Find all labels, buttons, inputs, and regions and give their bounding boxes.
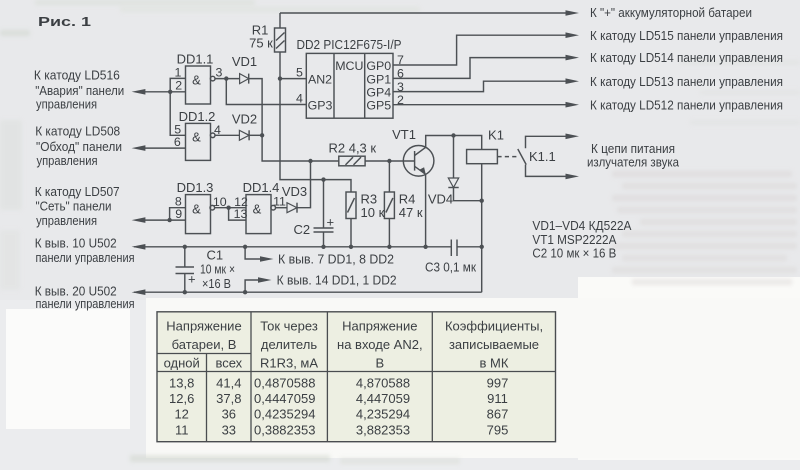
svg-text:Напряжение: Напряжение <box>342 319 417 334</box>
svg-text:997: 997 <box>487 376 509 391</box>
resistor R1 <box>275 28 286 52</box>
svg-text:на входе AN2,: на входе AN2, <box>337 337 423 352</box>
svg-text:+: + <box>188 272 196 287</box>
svg-text:К катоду LD516: К катоду LD516 <box>34 67 120 82</box>
junction VT1 base R4 <box>387 159 391 163</box>
junction R4 bottom ground rail <box>387 245 391 249</box>
net label LD508 Obhod <box>35 124 122 168</box>
wire node AN2 divider branch down to R3 <box>280 79 351 192</box>
IC DD2 MCU box <box>306 53 393 118</box>
wire C2 top lead to divider node <box>323 180 325 228</box>
svg-text:"Авария" панели: "Авария" панели <box>35 83 124 98</box>
svg-text:DD1.3: DD1.3 <box>177 180 214 195</box>
svg-text:3: 3 <box>215 66 222 80</box>
wire C1 bottom lead <box>184 274 186 293</box>
svg-text:К катоду LD513 панели управлен: К катоду LD513 панели управления <box>590 74 783 89</box>
junction C2 node on divider <box>321 177 325 181</box>
svg-text:DD1.2: DD1.2 <box>179 109 216 124</box>
svg-text:VT1: VT1 <box>392 127 416 142</box>
svg-text:2: 2 <box>397 93 404 107</box>
net label LD507 Set <box>35 184 120 228</box>
wire R1 bottom lead to node AN2 <box>279 52 281 79</box>
svg-text:в МК: в МК <box>480 356 509 371</box>
svg-text:4: 4 <box>214 123 221 137</box>
wire MCU GP4 pin3 to arrow LD513 <box>393 78 579 91</box>
wire DD1.3 pin8 step <box>170 208 186 220</box>
wire R2 to VT1 base <box>365 160 415 162</box>
svg-text:панели управления: панели управления <box>36 296 135 311</box>
svg-text:MCU: MCU <box>335 59 363 73</box>
svg-text:управления: управления <box>36 213 97 228</box>
svg-text:К выв. 7 DD1, 8 DD2: К выв. 7 DD1, 8 DD2 <box>278 251 394 266</box>
svg-text:GP3: GP3 <box>308 99 333 113</box>
label R3 value <box>361 192 385 221</box>
wire VD2 cathode to node <box>249 134 262 136</box>
svg-text:записываемые: записываемые <box>449 337 539 352</box>
wire ground rail right segment at C3 <box>457 246 482 248</box>
wire arrow LD507 to DD1.3 pin9 <box>132 217 186 223</box>
svg-text:11: 11 <box>273 195 286 209</box>
svg-text:панели управления: панели управления <box>36 250 135 265</box>
wire arrow LD508 to DD1.2 pin6 <box>132 145 186 151</box>
wire relay node to K1 coil top <box>454 136 482 150</box>
svg-text:911: 911 <box>487 391 508 406</box>
svg-text:"Сеть" панели: "Сеть" панели <box>36 199 112 214</box>
junction branch pins 14-1 supply rail <box>243 290 247 294</box>
data table <box>157 312 556 442</box>
transistor VT1 <box>403 146 434 177</box>
svg-text:0,4235294: 0,4235294 <box>254 406 315 421</box>
wire K1.1 bottom branch to arrow <box>526 165 580 180</box>
wire R1 top lead <box>279 13 281 28</box>
diode VD4 <box>448 178 458 188</box>
svg-text:&: & <box>192 130 201 145</box>
svg-text:AN2: AN2 <box>308 73 332 87</box>
svg-text:всех: всех <box>215 356 242 371</box>
svg-text:К катоду LD514 панели управлен: К катоду LD514 панели управления <box>590 50 783 65</box>
wire DD1.1 out branch to MCU pin GP3 <box>226 79 306 105</box>
wire C2 bottom lead <box>323 232 325 247</box>
junction C3 right supply line <box>480 245 484 249</box>
label C1 value <box>200 248 235 292</box>
svg-text:К выв. 10 U502: К выв. 10 U502 <box>35 235 117 250</box>
svg-text:K1.1: K1.1 <box>529 149 556 164</box>
svg-text:C2: C2 <box>294 222 311 237</box>
wire branch to pins 7 DD1 8 DD2 <box>245 247 273 262</box>
svg-text:10 к: 10 к <box>361 205 385 220</box>
svg-text:DD1.1: DD1.1 <box>177 52 214 67</box>
contact K1.1 blade <box>518 149 526 165</box>
svg-text:R1R3, мА: R1R3, мА <box>260 356 318 371</box>
wire DD1.3 out to DD1.4 pin12 <box>214 207 246 209</box>
net label pin 20 U502 <box>35 284 135 312</box>
svg-text:10 мк ×: 10 мк × <box>200 262 235 277</box>
svg-text:4,870588: 4,870588 <box>356 376 410 391</box>
junction VD3 node on R2 line <box>308 159 312 163</box>
junction DD1.1 inputs <box>168 90 172 94</box>
svg-text:DD1.4: DD1.4 <box>243 180 280 195</box>
wire R4 top lead <box>388 161 390 192</box>
svg-text:VD4: VD4 <box>428 192 453 207</box>
svg-text:11: 11 <box>175 423 189 438</box>
wire DD1.4 pin13 step <box>229 208 246 220</box>
svg-text:7: 7 <box>397 53 404 67</box>
junction C1 bottom supply rail <box>183 290 187 294</box>
wire supply rail <box>134 291 482 293</box>
wire K1.1 top branch to arrow <box>526 134 580 149</box>
svg-text:C3 0,1 мк: C3 0,1 мк <box>425 260 476 275</box>
gate DD1.4 <box>246 195 276 234</box>
parts list note <box>532 218 631 261</box>
wire R4 bottom lead <box>388 219 390 247</box>
svg-text:795: 795 <box>487 423 509 438</box>
svg-text:4,447059: 4,447059 <box>356 391 410 406</box>
svg-text:VD1: VD1 <box>232 54 257 69</box>
diode VD1 <box>240 74 249 84</box>
wire MCU GP5 pin2 to arrow LD512 <box>393 102 579 108</box>
svg-text:75 к: 75 к <box>249 35 273 50</box>
svg-text:излучателя звука: излучателя звука <box>587 155 680 170</box>
svg-text:0,4447059: 0,4447059 <box>254 391 315 406</box>
wire DD1.4 out to VD3 anode <box>275 207 287 209</box>
svg-text:K1: K1 <box>488 128 504 143</box>
wire top rail to battery + <box>280 10 579 16</box>
gate DD1.1 <box>186 66 216 104</box>
svg-text:4,235294: 4,235294 <box>356 406 410 421</box>
wire VD4 anode lead <box>453 136 455 179</box>
junction DD1.3 inputs <box>167 218 171 222</box>
label R4 value <box>399 192 423 221</box>
wire K1 coil bottom down to supply rail <box>481 164 483 293</box>
junction VD4 cathode coil bottom <box>480 199 484 203</box>
net label sound emitter circuit <box>587 141 680 170</box>
junction DD1.4 inputs <box>226 206 230 210</box>
wire VD1 cathode down to VD2 node <box>249 79 262 136</box>
svg-text:36: 36 <box>222 406 236 421</box>
svg-text:13: 13 <box>234 207 248 221</box>
svg-text:13,8: 13,8 <box>169 376 194 391</box>
wire DD1.1 pin1 step <box>170 78 185 91</box>
svg-text:3: 3 <box>397 80 404 94</box>
capacitor C2 <box>314 215 335 233</box>
wire MCU GP0 pin7 to arrow LD515 <box>393 32 579 65</box>
svg-text:управления: управления <box>37 153 98 168</box>
junction VT1 emitter ground rail <box>423 245 427 249</box>
svg-text:GP0: GP0 <box>366 59 391 73</box>
diode VD3 <box>287 203 297 213</box>
svg-text:одной: одной <box>164 356 200 371</box>
resistor R4 <box>384 192 394 219</box>
svg-text:Рис. 1: Рис. 1 <box>38 14 91 29</box>
svg-text:0,3882353: 0,3882353 <box>254 423 315 438</box>
svg-text:4: 4 <box>296 92 303 106</box>
svg-text:+: + <box>327 215 335 230</box>
wire VT1 collector to relay node <box>426 136 454 148</box>
wire MCU GP1 pin6 to arrow LD514 <box>393 55 579 79</box>
capacitor C1 <box>176 267 196 287</box>
label R1 value <box>249 23 273 51</box>
svg-text:управления: управления <box>36 97 97 112</box>
svg-text:×16 В: ×16 В <box>202 276 231 291</box>
wire R3 bottom lead <box>350 219 352 247</box>
junction VD2 cathode node <box>260 133 264 137</box>
junction branch pins 7-8 ground rail <box>243 245 247 249</box>
svg-text:батареи, В: батареи, В <box>172 337 237 352</box>
svg-text:DD2 PIC12F675-I/P: DD2 PIC12F675-I/P <box>297 37 402 52</box>
svg-text:В: В <box>375 356 384 371</box>
svg-text:0,4870588: 0,4870588 <box>254 376 315 391</box>
junction R3 bottom ground rail <box>349 245 353 249</box>
gate DD1.3 <box>186 195 215 234</box>
dashed link K1 to K1.1 <box>497 156 517 158</box>
svg-text:&: & <box>192 202 201 217</box>
relay K1 coil <box>467 150 498 164</box>
svg-text:12: 12 <box>174 406 188 421</box>
svg-text:VD2: VD2 <box>232 112 257 127</box>
svg-text:12,6: 12,6 <box>169 391 194 406</box>
svg-text:47 к: 47 к <box>399 205 423 220</box>
capacitor C3 <box>451 240 457 257</box>
wire DD1.1 input to DD1.2 pin5 <box>170 92 185 136</box>
svg-text:К катоду LD508: К катоду LD508 <box>35 124 120 139</box>
resistor R2 <box>339 156 365 166</box>
svg-text:Напряжение: Напряжение <box>166 319 241 334</box>
svg-text:C2 10 мк × 16 В: C2 10 мк × 16 В <box>532 245 616 260</box>
wire DD1.2 out to VD2 anode <box>215 134 240 136</box>
junction DD1.1 out GP3 <box>224 76 228 80</box>
junction C2 bottom ground rail <box>321 245 325 249</box>
svg-text:867: 867 <box>487 406 509 421</box>
svg-text:Ток через: Ток через <box>260 319 318 334</box>
net label LD516 Avaria <box>34 67 124 111</box>
junction VT1 collector VD4 K1 <box>451 133 455 137</box>
svg-text:R2 4,3 к: R2 4,3 к <box>328 141 376 156</box>
wire DD1.1 out to VD1 anode <box>215 78 240 80</box>
gate DD1.2 <box>186 123 216 160</box>
arrow to pin 10 U502 <box>132 244 146 250</box>
svg-text:Коэффициенты,: Коэффициенты, <box>445 319 543 334</box>
wire VD3 cathode up to R2 line node <box>297 161 311 208</box>
junction node AN2 R1 <box>278 76 282 80</box>
svg-text:9: 9 <box>175 207 182 221</box>
svg-text:5: 5 <box>296 66 303 80</box>
diode VD2 <box>239 130 249 140</box>
svg-text:6: 6 <box>174 135 181 149</box>
svg-text:делитель: делитель <box>261 337 317 352</box>
wire C1 top lead <box>184 247 186 267</box>
svg-text:37,8: 37,8 <box>216 391 241 406</box>
svg-text:10: 10 <box>213 195 227 209</box>
svg-text:К "+" аккумуляторной батареи: К "+" аккумуляторной батареи <box>590 5 752 20</box>
svg-text:33: 33 <box>222 423 236 438</box>
svg-text:К выв. 14 DD1, 1 DD2: К выв. 14 DD1, 1 DD2 <box>277 272 397 287</box>
svg-text:VD1–VD4 КД522А: VD1–VD4 КД522А <box>532 218 631 233</box>
svg-text:GP5: GP5 <box>366 99 391 113</box>
svg-text:"Обход" панели: "Обход" панели <box>36 139 122 154</box>
wire branch to pins 14 DD1 1 DD2 <box>245 277 271 292</box>
svg-text:3,882353: 3,882353 <box>356 423 410 438</box>
wire ground rail left <box>134 246 451 248</box>
svg-text:К катоду LD512 панели управлен: К катоду LD512 панели управления <box>590 98 783 113</box>
svg-text:6: 6 <box>397 67 404 81</box>
svg-text:41,4: 41,4 <box>216 376 241 391</box>
svg-text:К катоду LD507: К катоду LD507 <box>35 184 120 199</box>
wire VD2 node down to R2 line <box>262 135 339 161</box>
arrow to pin 20 U502 <box>132 289 146 295</box>
svg-text:К катоду LD515 панели управлен: К катоду LD515 панели управления <box>590 28 783 43</box>
svg-text:GP1: GP1 <box>366 73 391 87</box>
wire arrow LD516 to DD1.1 pin2 <box>132 89 186 95</box>
svg-text:2: 2 <box>175 79 182 93</box>
wire VD4 cathode to coil bottom line <box>454 188 482 201</box>
svg-text:C1: C1 <box>207 248 224 263</box>
net label pin 10 U502 <box>35 235 135 265</box>
wire node AN2 to MCU pin 5 <box>280 78 306 80</box>
resistor R3 <box>346 192 356 219</box>
svg-text:1: 1 <box>175 66 182 80</box>
svg-text:GP4: GP4 <box>366 86 391 100</box>
svg-text:&: & <box>253 202 262 217</box>
svg-text:&: & <box>192 73 201 88</box>
junction C1 top ground rail <box>183 245 187 249</box>
wire VT1 emitter down to ground rail <box>425 174 427 247</box>
